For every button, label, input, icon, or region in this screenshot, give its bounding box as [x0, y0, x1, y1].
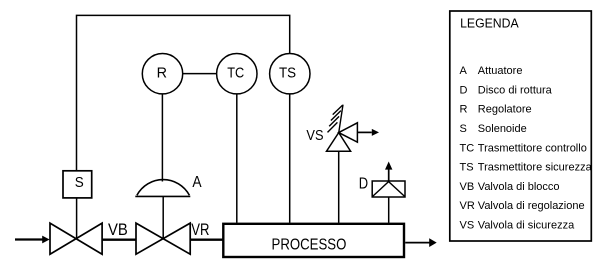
svg-text:TS: TS: [279, 66, 296, 82]
svg-text:TC: TC: [227, 66, 244, 82]
svg-text:LEGENDA: LEGENDA: [460, 15, 519, 30]
svg-text:PROCESSO: PROCESSO: [272, 236, 347, 253]
svg-text:S: S: [460, 123, 467, 135]
svg-text:Trasmettitore controllo: Trasmettitore controllo: [478, 142, 587, 154]
svg-text:R: R: [460, 104, 468, 116]
svg-text:Trasmettitore sicurezza: Trasmettitore sicurezza: [478, 162, 593, 174]
svg-text:Regolatore: Regolatore: [478, 104, 532, 116]
svg-text:TC: TC: [460, 142, 475, 154]
svg-text:VR: VR: [191, 221, 209, 239]
svg-text:Valvola di regolazione: Valvola di regolazione: [478, 200, 585, 212]
svg-text:VB: VB: [108, 221, 128, 239]
svg-text:Valvola di sicurezza: Valvola di sicurezza: [478, 219, 575, 231]
svg-text:VS: VS: [306, 127, 323, 144]
svg-text:A: A: [460, 65, 468, 77]
svg-text:Solenoide: Solenoide: [478, 123, 527, 135]
svg-text:S: S: [75, 175, 84, 191]
svg-text:Attuatore: Attuatore: [478, 65, 523, 77]
svg-text:VR: VR: [460, 200, 475, 212]
svg-text:Valvola di blocco: Valvola di blocco: [478, 181, 560, 193]
svg-text:Disco di rottura: Disco di rottura: [478, 85, 553, 97]
svg-text:A: A: [192, 174, 201, 191]
svg-text:VB: VB: [460, 181, 475, 193]
svg-text:TS: TS: [460, 162, 474, 174]
svg-text:VS: VS: [460, 219, 475, 231]
svg-text:D: D: [359, 175, 368, 192]
svg-text:D: D: [460, 85, 468, 97]
svg-text:R: R: [157, 66, 167, 82]
